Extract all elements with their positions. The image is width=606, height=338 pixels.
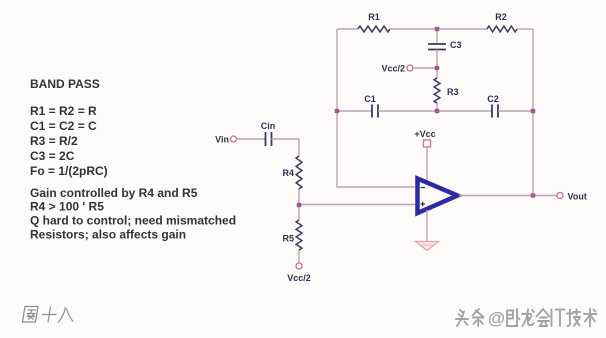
node mid right (531, 109, 536, 114)
wire Vcc supply (426, 147, 428, 181)
resistor R1 (358, 26, 390, 32)
node output junction (531, 193, 536, 198)
wm char ji (567, 310, 580, 327)
svg-text:R4: R4 (282, 168, 294, 178)
wire mid-right (498, 110, 533, 112)
resistor R3 (434, 68, 440, 111)
svg-text:Q hard to control; need mismat: Q hard to control; need mismatched (30, 214, 236, 228)
svg-text:+Vcc: +Vcc (414, 129, 435, 139)
svg-text:C1: C1 (364, 94, 376, 104)
resistor R4 (296, 156, 302, 189)
wm char tiao (474, 310, 485, 327)
resistor R5 (296, 205, 302, 263)
wm char ji (568, 311, 581, 328)
wire top-left lead (337, 28, 358, 30)
svg-text:@: @ (488, 308, 505, 328)
wire Cin to R4 (272, 139, 300, 156)
terminal Vin (231, 136, 237, 142)
wm char tou (457, 311, 469, 327)
svg-text:C2: C2 (487, 94, 499, 104)
wire left vertical (337, 29, 417, 187)
terminal +Vcc (424, 140, 431, 147)
node mid center (435, 109, 440, 114)
svg-text:BAND PASS: BAND PASS (30, 77, 100, 91)
wm letters IT shadow (553, 311, 566, 328)
op-amp U1 (418, 179, 458, 214)
svg-text:C3 = 2C: C3 = 2C (30, 149, 75, 163)
wm letters IT (552, 310, 565, 327)
svg-text:R1 = R2 = R: R1 = R2 = R (30, 104, 97, 118)
svg-text:Vin: Vin (215, 135, 229, 145)
node Vcc/2 junction (435, 66, 440, 71)
wm char long (522, 310, 534, 327)
wm char hui (538, 310, 551, 327)
wire R4 to node (298, 189, 300, 205)
wire Vin lead (237, 138, 266, 140)
svg-text:Resistors; also affects gain: Resistors; also affects gain (30, 228, 186, 242)
svg-text:Vout: Vout (568, 192, 587, 202)
capacitor C3 (428, 29, 446, 68)
wm char tiao (473, 309, 484, 326)
wire Vcc/2 lead (413, 67, 437, 69)
wm char wo (508, 310, 520, 327)
svg-text:C1 = C2 = C: C1 = C2 = C (30, 119, 97, 133)
resistor R2 (487, 26, 517, 32)
svg-text:R4 > 100 ' R5: R4 > 100 ' R5 (30, 200, 104, 214)
node mid left (335, 109, 340, 114)
svg-text:Vcc/2: Vcc/2 (381, 64, 405, 74)
wire output (459, 195, 557, 197)
wm char long (523, 311, 535, 328)
wm char wo (507, 309, 520, 326)
svg-text:C3: C3 (450, 40, 462, 50)
watermark (456, 308, 598, 329)
svg-text:Fo = 1/(2pRC): Fo = 1/(2pRC) (30, 164, 108, 178)
svg-text:Vcc/2: Vcc/2 (287, 273, 311, 283)
svg-text:R3 = R/2: R3 = R/2 (30, 134, 78, 148)
wm char hui (537, 309, 550, 326)
wm char shu (585, 310, 598, 328)
terminal Vout (557, 193, 563, 199)
wire mid-center (378, 110, 492, 112)
wire right vertical (532, 29, 534, 196)
node R4-R5 junction (297, 203, 302, 208)
ground (416, 242, 439, 251)
node top center (435, 27, 440, 32)
wm char tou (456, 310, 468, 326)
wire to ground (426, 210, 428, 242)
wire top-right lead (517, 28, 533, 30)
terminal Vcc/2 upper (407, 65, 413, 71)
svg-text:R3: R3 (447, 87, 459, 97)
wire mid-left (337, 110, 372, 112)
svg-text:R5: R5 (282, 234, 294, 244)
wire top-middle (390, 28, 487, 30)
svg-text:R1: R1 (368, 12, 380, 22)
caption figure 18 (23, 307, 74, 323)
svg-text:Gain controlled by R4 and R5: Gain controlled by R4 and R5 (30, 186, 198, 200)
svg-text:Cin: Cin (261, 121, 276, 131)
capacitor Cin (266, 132, 272, 146)
capacitor C2 (492, 105, 498, 118)
svg-text:R2: R2 (495, 12, 507, 22)
wm char shu (584, 309, 597, 327)
wire plus input (299, 204, 417, 206)
capacitor C1 (372, 105, 378, 118)
terminal Vcc/2 lower (296, 263, 302, 269)
